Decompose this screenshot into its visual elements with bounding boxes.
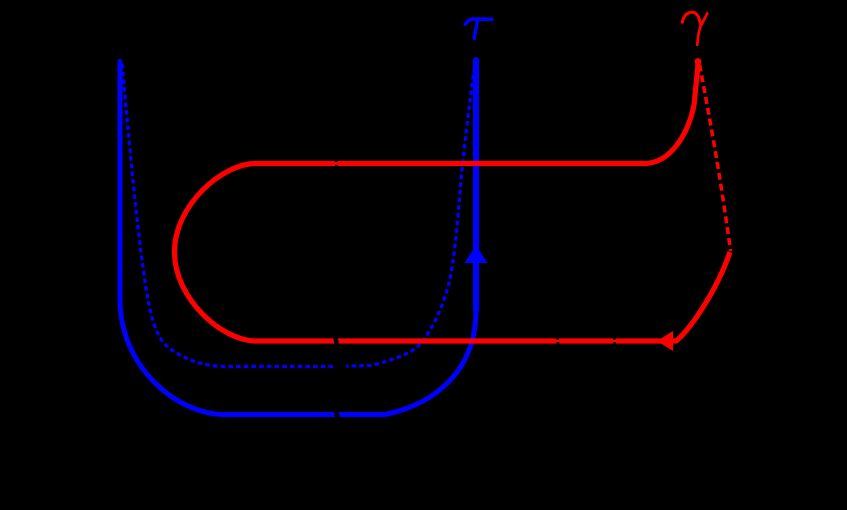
red peak dot <box>695 58 702 65</box>
label tau <box>465 19 492 38</box>
red arrowhead left on lower line <box>657 331 673 351</box>
blue solid curve tau : left arm + bottom <box>120 62 476 415</box>
blue dashed inner curve <box>122 60 476 367</box>
red dashed segment <box>700 65 731 252</box>
black nick on red lower line 1 <box>556 338 559 340</box>
blue arrowhead up on right arm <box>465 245 488 263</box>
blue solid curve tau : right arm <box>473 60 479 310</box>
black nick on red upper line <box>335 160 338 162</box>
black nick on red lower line 2 <box>613 338 616 340</box>
red solid curve gamma <box>175 62 731 341</box>
black gap on blue dashed line <box>336 361 346 372</box>
black slash gap on red lower line <box>335 336 337 346</box>
label gamma <box>682 12 707 45</box>
black slash gap on blue bottom line <box>336 409 339 420</box>
